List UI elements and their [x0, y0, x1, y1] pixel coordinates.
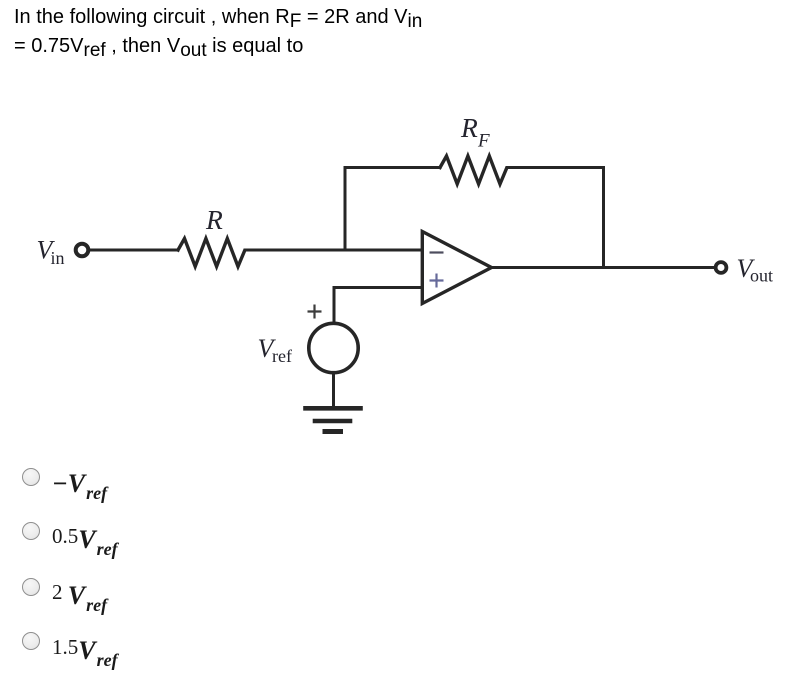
- svg-text:in: in: [51, 248, 65, 268]
- resistor RF: [440, 156, 507, 184]
- option D label: [52, 636, 118, 666]
- option D radio: [21, 631, 23, 633]
- wire feedback right vertical to output node: [602, 168, 605, 268]
- ground: [306, 408, 361, 431]
- svg-text:R: R: [460, 112, 478, 143]
- svg-text:out: out: [750, 266, 773, 286]
- option B radio: [21, 521, 23, 523]
- voltage source Vref: [309, 323, 358, 372]
- wire op-amp output to Vout terminal: [492, 266, 715, 269]
- wire junction to feedback (vertical): [344, 168, 347, 251]
- wire op-amp noninverting input: [334, 288, 422, 323]
- option A radio: [21, 467, 23, 469]
- op-amp minus pin label: [430, 251, 444, 253]
- svg-text:F: F: [477, 131, 490, 152]
- option A label: [52, 469, 107, 499]
- svg-text:R: R: [205, 204, 223, 235]
- option B label: [52, 525, 118, 555]
- terminal Vin: [76, 244, 89, 257]
- question text: [14, 3, 774, 61]
- wire Vref to ground: [332, 373, 335, 407]
- wire Vin terminal to resistor R: [90, 249, 178, 252]
- op-amp U1: [422, 232, 491, 304]
- option C label: [52, 581, 107, 611]
- resistor R: [178, 239, 245, 267]
- op-amp plus pin label: [430, 274, 444, 288]
- wire feedback top left: [345, 166, 440, 169]
- terminal Vout: [716, 262, 727, 273]
- option C radio: [21, 577, 23, 579]
- wire resistor R to op-amp inverting input: [245, 249, 422, 252]
- plus polarity mark of Vref: [308, 305, 322, 319]
- svg-text:ref: ref: [272, 346, 292, 366]
- wire feedback top right: [507, 166, 604, 169]
